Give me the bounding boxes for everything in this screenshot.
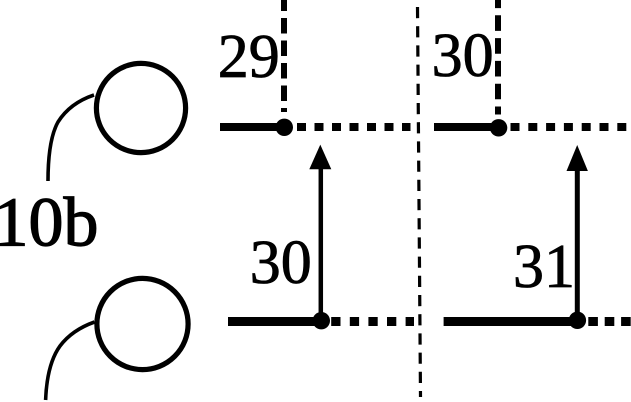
svg-text:29: 29 — [218, 23, 280, 91]
svg-text:10b: 10b — [0, 185, 99, 262]
svg-text:30: 30 — [250, 229, 312, 297]
svg-text:30: 30 — [432, 22, 494, 90]
svg-text:31: 31 — [513, 233, 575, 301]
